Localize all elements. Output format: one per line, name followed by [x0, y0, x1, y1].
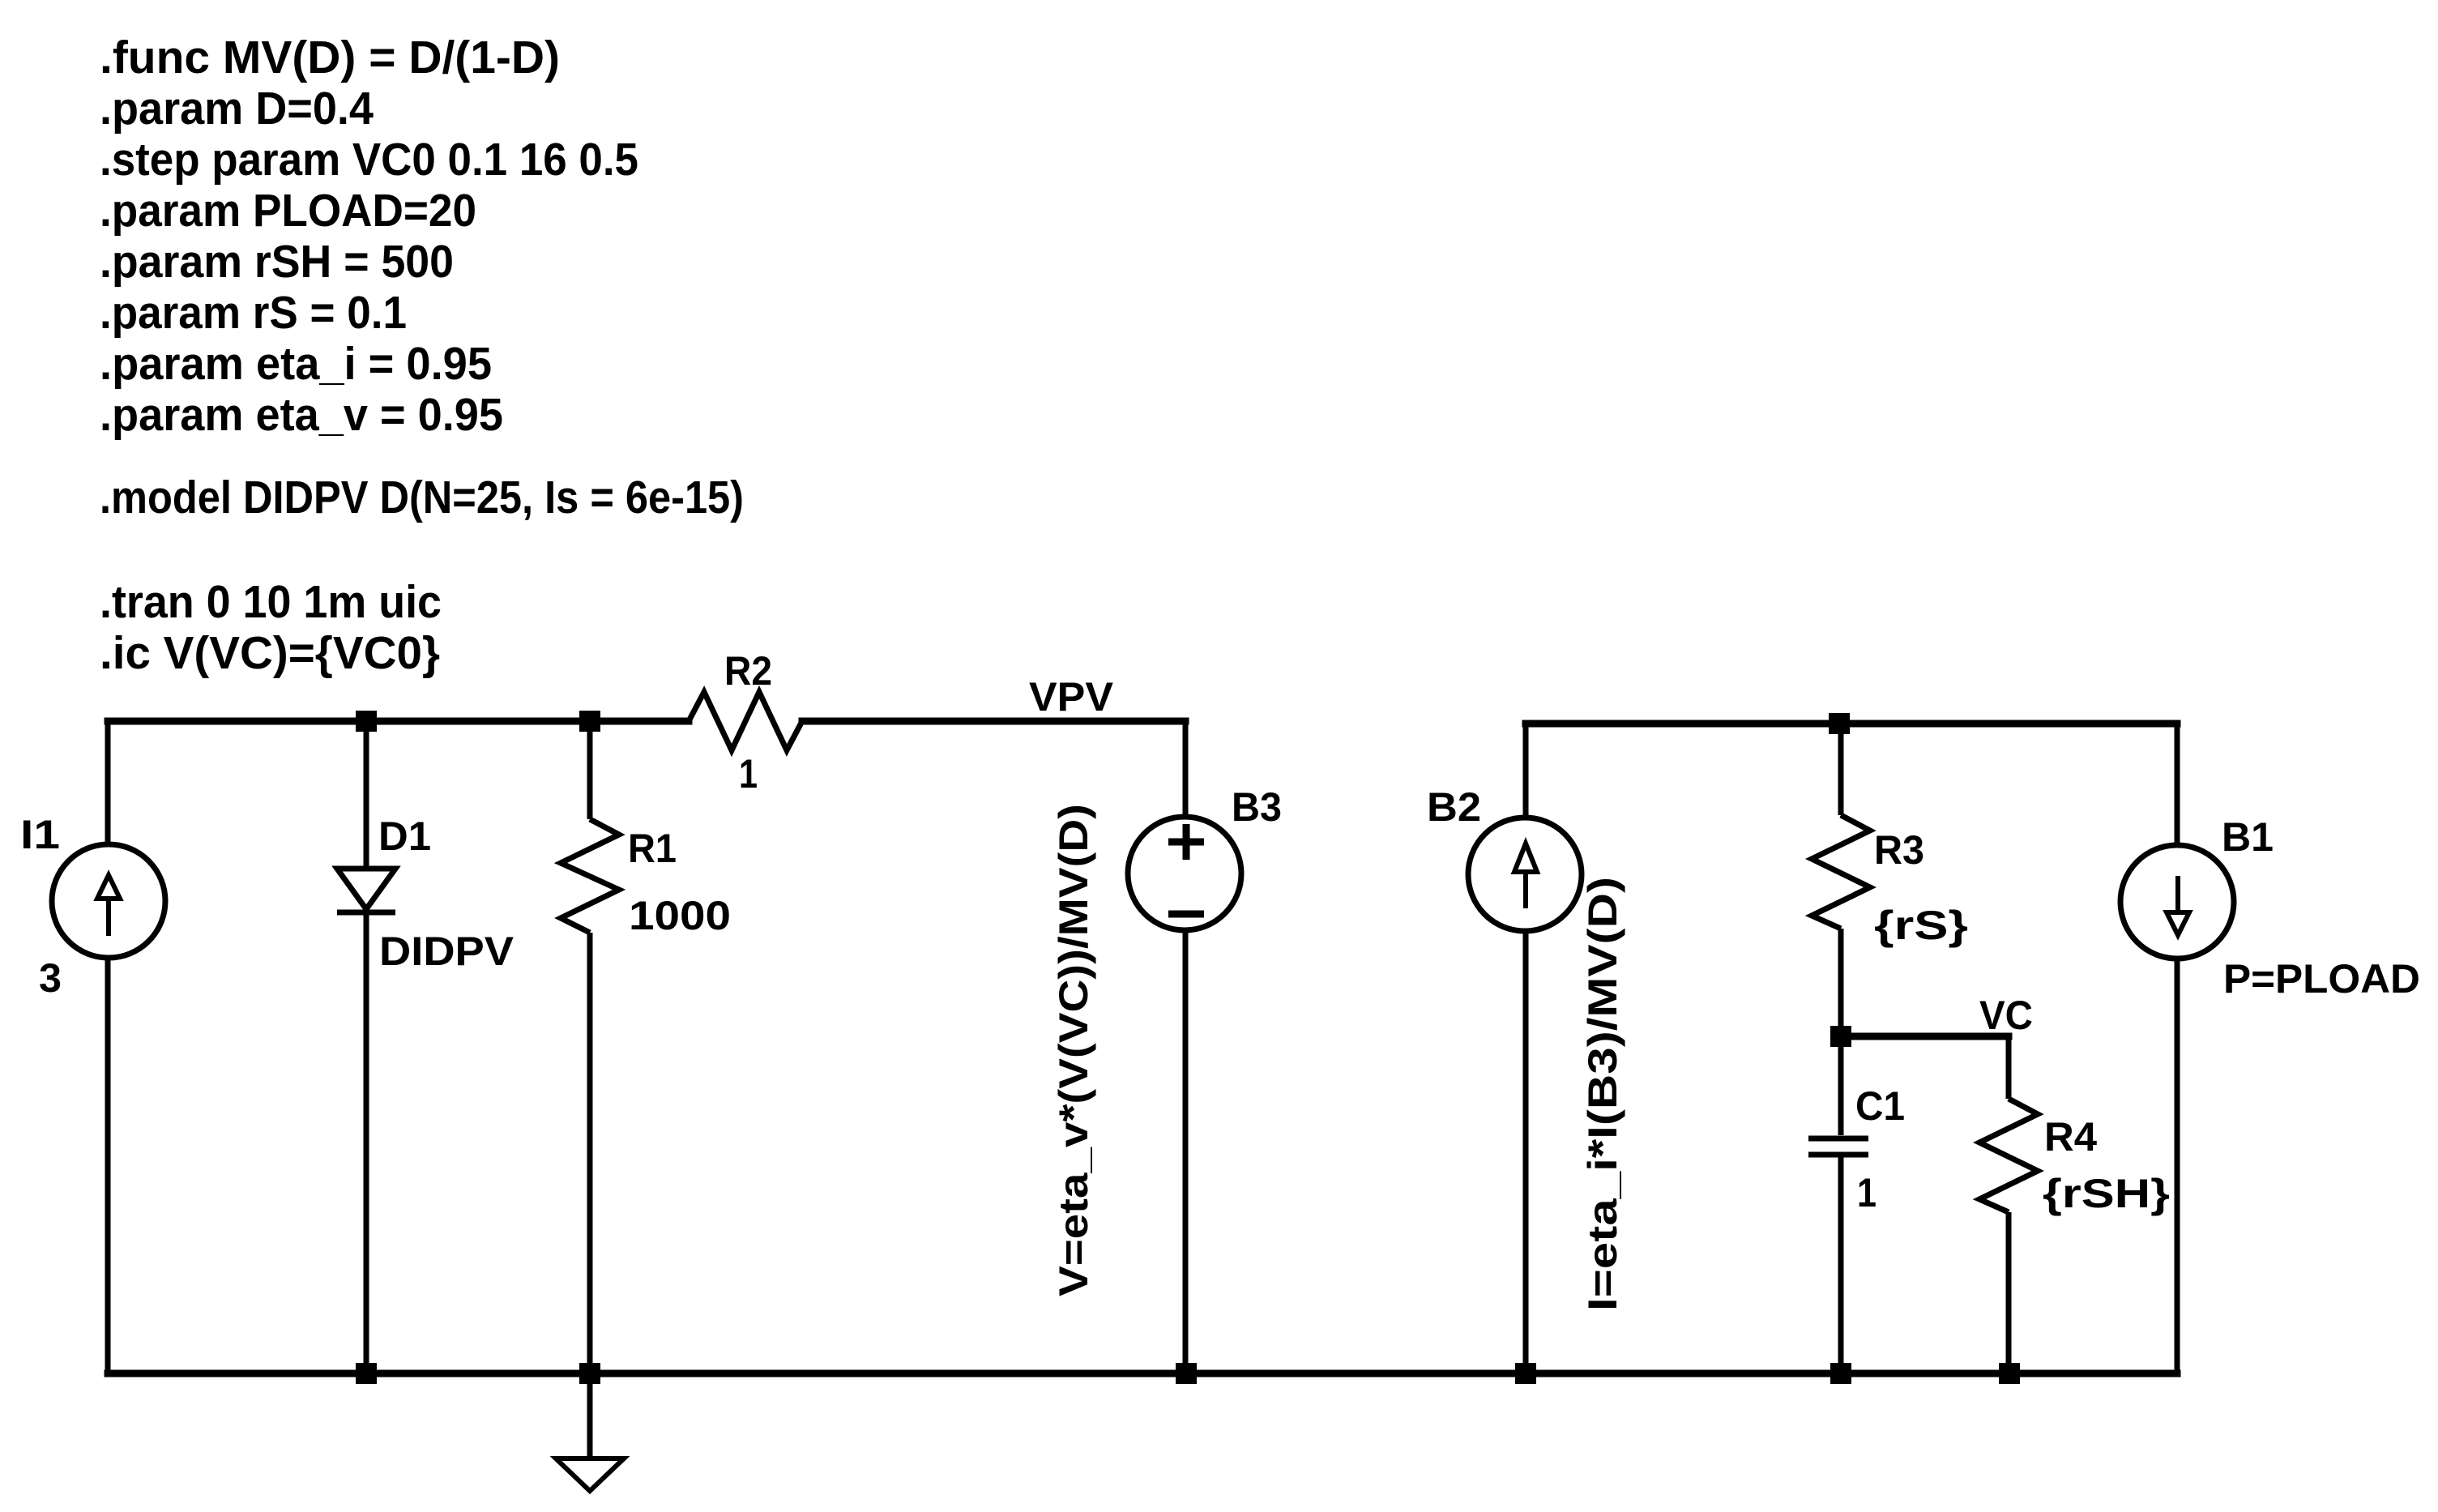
- svg-text:C1: C1: [1855, 1083, 1905, 1129]
- ground: [556, 1459, 624, 1491]
- svg-text:P=PLOAD: P=PLOAD: [2223, 956, 2420, 1002]
- wire C1 top: [1838, 1036, 1844, 1135]
- svg-text:.param PLOAD=20: .param PLOAD=20: [100, 185, 476, 237]
- wire R1 bottom: [587, 933, 593, 1373]
- junction node C1 bottom: [1830, 1363, 1851, 1384]
- svg-text:.param D=0.4: .param D=0.4: [100, 83, 374, 135]
- svg-text:.func MV(D) = D/(1-D): .func MV(D) = D/(1-D): [100, 32, 560, 83]
- svg-text:.ic V(VC)={VC0}: .ic V(VC)={VC0}: [100, 627, 440, 679]
- svg-text:I=eta_i*I(B3)/MV(D): I=eta_i*I(B3)/MV(D): [1580, 877, 1625, 1311]
- junction node R1 top: [579, 711, 600, 732]
- junction node VC: [1830, 1026, 1851, 1047]
- svg-text:.param eta_i = 0.95: .param eta_i = 0.95: [100, 338, 492, 390]
- behavioral current source B2: [1468, 818, 1582, 931]
- wire top right horizontal B2 to B1: [1526, 720, 2177, 728]
- current source I1: [52, 844, 165, 958]
- wire I1 bottom: [105, 958, 111, 1373]
- diode D1: [337, 869, 395, 912]
- svg-text:R3: R3: [1874, 827, 1924, 873]
- wire R3 top: [1838, 724, 1844, 815]
- svg-text:D1: D1: [378, 814, 431, 859]
- svg-text:VPV: VPV: [1029, 674, 1114, 720]
- resistor R4: [1979, 1099, 2038, 1212]
- wire R1 top: [587, 721, 593, 819]
- wire C1 bottom: [1838, 1157, 1844, 1373]
- junction node R4 bottom: [1999, 1363, 2020, 1384]
- wire R2 right lead to VPV corner: [802, 718, 1185, 725]
- wire ground stem: [587, 1373, 593, 1459]
- svg-text:.param rS = 0.1: .param rS = 0.1: [100, 287, 407, 339]
- wire B3 bottom: [1183, 930, 1189, 1373]
- junction node D1 bottom: [356, 1363, 377, 1384]
- svg-text:DIDPV: DIDPV: [379, 929, 514, 974]
- wire R4 bottom: [2006, 1212, 2012, 1373]
- wire VC horizontal: [1841, 1033, 2009, 1040]
- svg-text:1: 1: [739, 751, 758, 797]
- svg-text:1000: 1000: [629, 893, 731, 938]
- svg-text:R4: R4: [2044, 1114, 2097, 1160]
- capacitor C1: [1808, 1138, 1868, 1155]
- resistor R3: [1812, 815, 1870, 929]
- wire D1 bottom: [364, 912, 369, 1373]
- wire B1 top: [2175, 724, 2180, 845]
- svg-text:.model DIDPV D(N=25, Is = 6e-1: .model DIDPV D(N=25, Is = 6e-15): [100, 472, 744, 523]
- wire top left horizontal: [108, 718, 689, 725]
- wire B2 top: [1523, 724, 1529, 818]
- svg-text:R2: R2: [724, 648, 772, 694]
- wire I1 top: [105, 721, 111, 844]
- wire B2 bottom: [1523, 931, 1529, 1373]
- svg-text:I1: I1: [20, 812, 60, 857]
- resistor R2: [689, 692, 802, 750]
- junction node ground: [579, 1363, 600, 1384]
- wire B1 bottom: [2175, 959, 2180, 1373]
- svg-text:VC: VC: [1979, 993, 2033, 1038]
- junction node B3 bottom: [1176, 1363, 1197, 1384]
- svg-text:1: 1: [1857, 1170, 1877, 1215]
- junction node D1 top: [356, 711, 377, 732]
- behavioral voltage source B3: [1128, 817, 1241, 930]
- svg-text:3: 3: [39, 955, 62, 1001]
- wire D1 top: [364, 721, 369, 869]
- svg-text:.step param VC0 0.1 16 0.5: .step param VC0 0.1 16 0.5: [100, 134, 638, 186]
- svg-text:.param rSH = 500: .param rSH = 500: [100, 236, 454, 288]
- junction node R3 top: [1829, 713, 1850, 734]
- svg-text:B1: B1: [2222, 814, 2274, 860]
- svg-text:{rSH}: {rSH}: [2043, 1171, 2170, 1216]
- svg-text:R1: R1: [628, 826, 677, 871]
- junction node B2 bottom: [1515, 1363, 1536, 1384]
- svg-text:.tran 0 10 1m uic: .tran 0 10 1m uic: [100, 576, 442, 628]
- wire R4 top: [2006, 1036, 2012, 1099]
- behavioral power source B1: [2120, 845, 2234, 959]
- svg-text:.param eta_v = 0.95: .param eta_v = 0.95: [100, 389, 503, 441]
- wire B3 top: [1183, 721, 1189, 817]
- resistor R1: [561, 819, 619, 933]
- svg-text:B2: B2: [1427, 784, 1481, 830]
- wire bottom rail: [108, 1370, 2177, 1377]
- svg-text:{rS}: {rS}: [1874, 903, 1968, 948]
- svg-text:V=eta_v*(V(VC))/MV(D): V=eta_v*(V(VC))/MV(D): [1051, 804, 1096, 1296]
- wire R3 bottom to VC node: [1838, 929, 1844, 1036]
- svg-text:B3: B3: [1232, 784, 1282, 830]
